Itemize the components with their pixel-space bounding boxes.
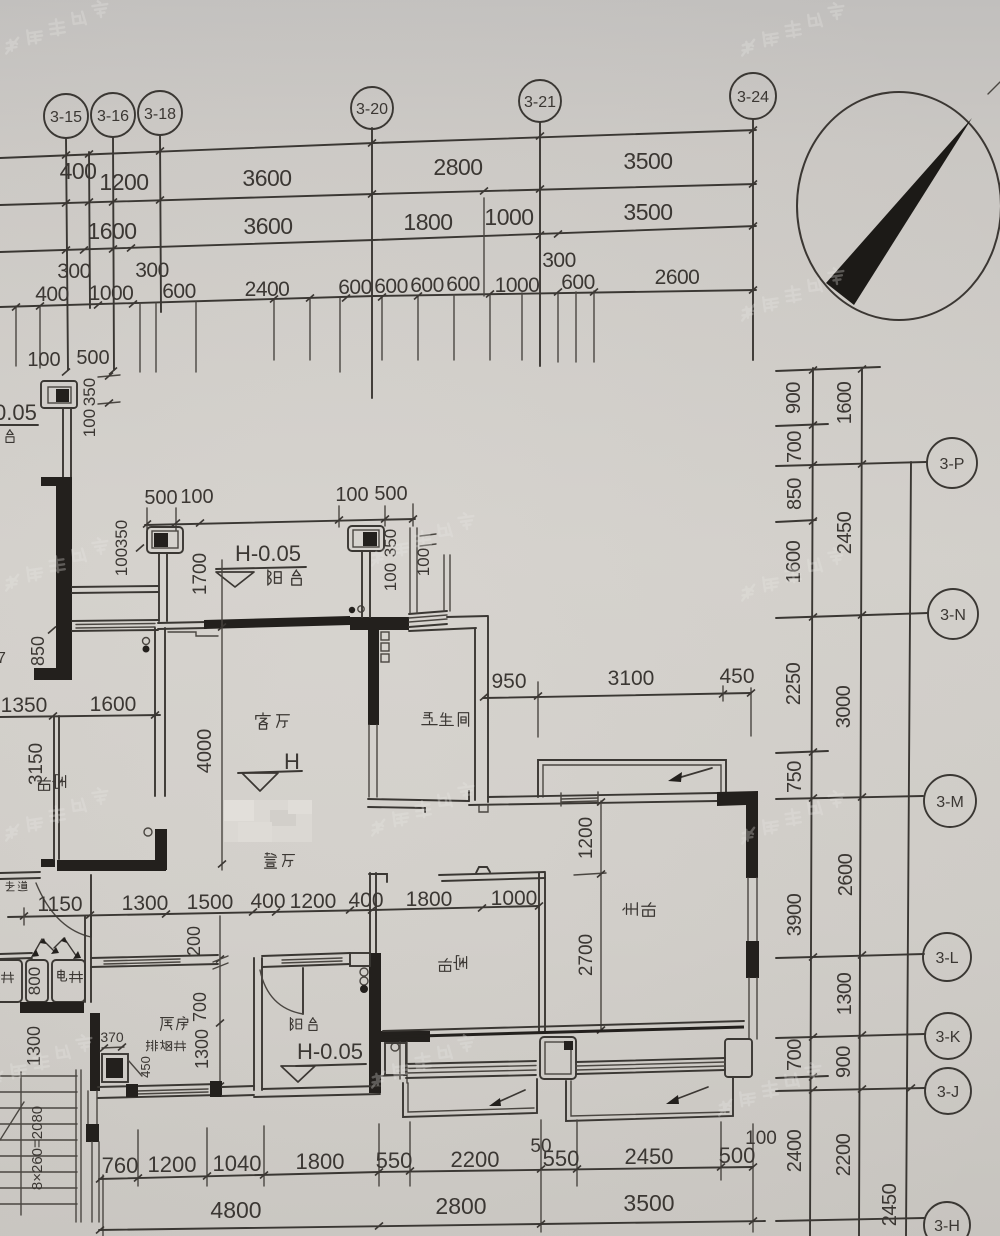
svg-text:300: 300 — [542, 249, 576, 272]
svg-text:760: 760 — [102, 1153, 139, 1178]
svg-text:3-24: 3-24 — [737, 89, 769, 106]
svg-text:100: 100 — [414, 548, 433, 576]
svg-text:450: 450 — [138, 1056, 153, 1078]
small circles node — [143, 638, 150, 645]
grid bubble 3-20 — [351, 87, 393, 129]
sw wall below kitchen — [87, 1091, 89, 1124]
svg-text:600: 600 — [338, 276, 372, 299]
grid line 3-20 — [371, 128, 373, 398]
svg-text:2450: 2450 — [879, 1183, 901, 1226]
svg-text:1150: 1150 — [37, 893, 82, 916]
svg-text:1000: 1000 — [495, 274, 540, 297]
living north wall — [158, 622, 206, 623]
arrow balcony 2 — [674, 1087, 708, 1100]
tick slashes row D — [12, 304, 20, 311]
svg-text:3-K: 3-K — [936, 1029, 961, 1046]
svg-text:1200: 1200 — [290, 890, 337, 913]
svg-text:3-21: 3-21 — [524, 94, 556, 111]
svg-text:3600: 3600 — [243, 213, 292, 239]
svg-text:2700: 2700 — [576, 934, 597, 976]
node circles — [360, 968, 368, 976]
corner mark — [988, 82, 1000, 94]
row A texts — [60, 148, 673, 195]
svg-text:1000: 1000 — [484, 204, 533, 230]
svg-text:1200: 1200 — [99, 169, 148, 195]
window band bedroom2 — [406, 1061, 536, 1064]
label zoudao — [6, 881, 14, 891]
grid bubble 3-18 — [138, 91, 182, 135]
row B texts — [87, 199, 672, 244]
s-balcony south wall — [262, 1086, 380, 1089]
master east black wall upper — [717, 791, 758, 878]
black wall west — [56, 477, 72, 677]
grid bubble 3-M — [924, 775, 976, 827]
svg-text:2800: 2800 — [433, 154, 482, 180]
svg-text:3150: 3150 — [26, 743, 47, 785]
mid dim row — [8, 906, 539, 917]
svg-text:3-N: 3-N — [940, 607, 966, 624]
svg-text:3500: 3500 — [623, 199, 672, 225]
svg-text:850: 850 — [28, 636, 48, 666]
svg-text:550: 550 — [376, 1148, 413, 1173]
svg-text:1700: 1700 — [190, 553, 211, 595]
dim line vertical master — [600, 801, 602, 1031]
tick slashes row C — [62, 247, 70, 254]
stairs — [0, 1070, 81, 1222]
svg-text:1800: 1800 — [406, 888, 453, 911]
svg-text:3-P: 3-P — [940, 456, 965, 473]
grid line 3-24 — [752, 119, 754, 360]
svg-text:600: 600 — [561, 271, 595, 294]
bay arrow — [678, 768, 712, 778]
balcony side walls — [158, 553, 160, 621]
label weishengjian — [422, 713, 437, 725]
svg-text:1200: 1200 — [576, 817, 597, 859]
svg-text:7: 7 — [0, 650, 6, 667]
watermark TR — [737, 2, 848, 56]
svg-text:2600: 2600 — [655, 266, 700, 289]
bath window north — [409, 611, 447, 614]
bottom dim row 1 — [99, 1167, 753, 1179]
bottom dim row 2 — [99, 1221, 765, 1230]
svg-text:3900: 3900 — [784, 893, 806, 936]
svg-text:500: 500 — [374, 483, 407, 505]
label woshi rotated — [439, 959, 452, 972]
svg-text:350: 350 — [80, 378, 99, 406]
s-balcony east wall white box — [350, 953, 370, 966]
svg-text:300: 300 — [57, 260, 91, 283]
label zhuwo rotated — [623, 903, 637, 916]
svg-text:700: 700 — [190, 992, 210, 1022]
watermark M5 — [367, 1034, 478, 1088]
master east window — [747, 878, 749, 941]
svg-text:700: 700 — [784, 1039, 806, 1071]
svg-text:3-H: 3-H — [934, 1218, 960, 1235]
svg-text:4800: 4800 — [210, 1197, 261, 1223]
svg-text:1200: 1200 — [148, 1152, 197, 1177]
svg-text:400: 400 — [348, 889, 383, 912]
dim row line B — [0, 184, 756, 205]
grid bubble 3-P — [927, 438, 977, 488]
kitchen east / s-balcony west wall — [253, 958, 255, 1090]
svg-text:500: 500 — [76, 347, 109, 369]
shaft boxes — [0, 960, 22, 1002]
svg-text:0.05: 0.05 — [0, 400, 37, 425]
svg-text:100: 100 — [335, 484, 368, 506]
window band NW — [72, 620, 158, 621]
grid bubble 3-24 — [730, 73, 776, 119]
chain line B — [859, 368, 862, 1236]
tick slashes row A — [62, 152, 70, 159]
svg-text:1350: 1350 — [1, 694, 48, 717]
svg-text:950: 950 — [491, 670, 526, 693]
bedroom2 divider wall — [538, 873, 540, 1033]
svg-text:3100: 3100 — [608, 667, 655, 690]
shaft hatch triangles — [33, 938, 77, 957]
grid bubble 3-J — [925, 1068, 971, 1114]
svg-text:3-L: 3-L — [935, 950, 958, 967]
svg-text:2200: 2200 — [451, 1147, 500, 1172]
grid bubble 3-L — [923, 933, 971, 981]
row C texts — [57, 249, 576, 283]
label jing partial — [2, 972, 14, 983]
svg-text:3500: 3500 — [623, 1190, 674, 1216]
living west black wall — [155, 829, 167, 870]
branch black wall — [381, 1031, 430, 1042]
watermark M4 — [367, 782, 478, 836]
svg-text:600: 600 — [446, 273, 480, 296]
shaft walls above bath — [409, 528, 411, 613]
svg-text:3600: 3600 — [242, 165, 291, 191]
bath top inner line — [409, 628, 476, 631]
corridor east wall — [84, 916, 86, 1002]
corridor door arc — [36, 883, 91, 937]
master north wall — [488, 793, 717, 797]
svg-text:750: 750 — [784, 761, 806, 793]
svg-text:100: 100 — [27, 349, 60, 371]
svg-text:450: 450 — [719, 665, 754, 688]
balcony dim line — [145, 519, 415, 525]
compass needle — [826, 118, 972, 305]
svg-text:100: 100 — [80, 409, 99, 437]
svg-text:2250: 2250 — [783, 662, 805, 705]
svg-text:3-J: 3-J — [937, 1084, 959, 1101]
svg-text:600: 600 — [410, 274, 444, 297]
blur patch — [224, 800, 312, 842]
master bay window — [538, 760, 726, 797]
row D texts — [35, 266, 699, 306]
black bar below shafts — [20, 1002, 84, 1013]
svg-text:1500: 1500 — [187, 891, 234, 914]
balcony master — [566, 1077, 733, 1121]
svg-text:800: 800 — [25, 967, 44, 995]
compass circle — [797, 92, 1000, 320]
living west wall — [154, 628, 156, 796]
kitchen south window — [98, 1084, 218, 1087]
door knob circle — [144, 828, 152, 836]
corridor door leaf — [90, 875, 92, 937]
east window 2 — [748, 978, 750, 1039]
svg-text:2400: 2400 — [784, 1129, 806, 1172]
tick line 1000/1800 — [483, 198, 485, 296]
bedrooms south wall — [383, 1027, 744, 1037]
grid bubble 3-16 — [91, 93, 135, 137]
other-unit bedroom south black wall — [57, 860, 166, 871]
paiyanjing label — [146, 1040, 157, 1051]
node circles at bath corner — [349, 607, 355, 613]
tick line 400 — [89, 152, 90, 308]
column south left — [385, 1043, 406, 1075]
svg-text:900: 900 — [833, 1046, 855, 1078]
svg-text:550: 550 — [543, 1146, 580, 1171]
watermark L5 — [0, 1034, 96, 1088]
s-balcony label yangtai — [290, 1018, 301, 1031]
bathroom black west wall — [368, 628, 379, 725]
svg-text:600: 600 — [162, 280, 196, 303]
svg-text:1800: 1800 — [296, 1149, 345, 1174]
grid line 3-21 — [539, 122, 541, 366]
bath top outer line — [447, 616, 488, 617]
small shaft right of wall — [399, 1042, 401, 1079]
bath south wall — [368, 799, 469, 801]
svg-text:900: 900 — [783, 382, 805, 414]
label keting — [256, 713, 270, 729]
underline — [0, 424, 38, 426]
grid bubble 3-21 — [519, 80, 561, 122]
window band master — [576, 1058, 725, 1062]
svg-text:3-16: 3-16 — [97, 108, 129, 125]
svg-text:1300: 1300 — [834, 972, 856, 1015]
kitchen west black wall — [90, 1013, 100, 1091]
dim row line D — [0, 290, 756, 307]
svg-text:4000: 4000 — [194, 729, 216, 774]
grid line 3-16 — [113, 137, 114, 370]
s-balcony top window — [262, 953, 350, 956]
watermark R4 — [737, 790, 848, 844]
tick slashes right chains — [809, 367, 817, 374]
svg-text:2450: 2450 — [625, 1144, 674, 1169]
s-balcony door leaf + arc — [302, 968, 304, 1014]
svg-text:1000: 1000 — [491, 887, 538, 910]
rotated chain texts outer — [833, 381, 901, 1226]
svg-text:200: 200 — [184, 926, 204, 956]
master east black wall lower — [746, 941, 759, 978]
svg-text:100: 100 — [745, 1128, 777, 1149]
svg-text:2400: 2400 — [245, 278, 290, 301]
svg-text:H-0.05: H-0.05 — [297, 1039, 363, 1064]
svg-text:1000: 1000 — [89, 282, 134, 305]
svg-text:3-15: 3-15 — [50, 109, 82, 126]
svg-text:1300: 1300 — [122, 892, 169, 915]
window in master north wall — [561, 798, 598, 799]
balcony column left — [147, 527, 183, 553]
svg-text:2200: 2200 — [833, 1133, 855, 1176]
corridor top wall — [0, 872, 40, 873]
column NW — [41, 381, 77, 408]
label canting — [265, 853, 277, 868]
dim row line A — [0, 130, 756, 158]
chain line A — [810, 368, 813, 1236]
dim line 1350 1600 — [0, 715, 160, 717]
level tick lines — [776, 367, 880, 371]
svg-text:850: 850 — [784, 478, 806, 510]
bath east wall — [474, 629, 476, 800]
dim row line C — [0, 226, 756, 252]
svg-text:2600: 2600 — [835, 853, 857, 896]
grid line 3-15 — [66, 138, 68, 370]
column south right — [725, 1039, 752, 1077]
svg-text:3000: 3000 — [833, 685, 855, 728]
watermark M3 — [367, 512, 478, 566]
notch below wall — [479, 805, 488, 812]
svg-text:1600: 1600 — [834, 381, 856, 424]
grid bubble 3-H — [924, 1202, 970, 1236]
label woshi other unit rotated — [38, 778, 51, 791]
svg-text:1600: 1600 — [90, 693, 137, 716]
bay window other unit — [72, 586, 158, 587]
kitchen north wall window — [91, 955, 218, 958]
svg-text:3-18: 3-18 — [144, 106, 176, 123]
svg-text:2800: 2800 — [435, 1193, 486, 1219]
svg-text:370: 370 — [100, 1029, 124, 1045]
watermark L3 — [1, 537, 112, 591]
svg-text:600: 600 — [374, 275, 408, 298]
svg-text:1800: 1800 — [403, 209, 452, 235]
watermark TL — [1, 0, 112, 54]
svg-text:H-0.05: H-0.05 — [235, 541, 301, 566]
column south mid — [540, 1037, 576, 1079]
svg-text:100: 100 — [112, 548, 131, 576]
svg-text:350: 350 — [112, 520, 131, 548]
other-unit bedroom east wall — [53, 716, 55, 859]
bedroom2 west wall thin — [369, 873, 371, 953]
svg-text:3500: 3500 — [623, 148, 672, 174]
svg-text:700: 700 — [784, 431, 806, 463]
svg-text:3-20: 3-20 — [356, 101, 388, 118]
svg-text:300: 300 — [135, 259, 169, 282]
svg-text:100: 100 — [381, 563, 400, 591]
svg-text:400: 400 — [250, 890, 285, 913]
drop lines below row D — [16, 291, 594, 372]
svg-text:100: 100 — [180, 486, 213, 508]
svg-text:400: 400 — [35, 283, 69, 306]
kitchen label — [161, 1018, 174, 1031]
tick slashes row B — [62, 200, 70, 207]
watermark L4 — [1, 787, 112, 841]
arrow balcony 1 — [496, 1090, 525, 1103]
grid line 3-18 — [160, 135, 161, 312]
svg-text:8×260=2080: 8×260=2080 — [29, 1106, 46, 1190]
three vent squares — [381, 632, 389, 640]
svg-text:1600: 1600 — [87, 218, 136, 244]
svg-text:400: 400 — [60, 158, 97, 184]
wall below NW column — [62, 408, 64, 477]
kitchen flue column — [102, 1054, 128, 1082]
grid bubble 3-15 — [44, 94, 88, 138]
balcony bedroom2 — [403, 1079, 537, 1117]
grid bubble 3-K — [925, 1013, 971, 1059]
label dianjing — [58, 970, 67, 981]
corridor bottom wall — [0, 953, 32, 954]
rotated chain texts inner — [783, 382, 806, 1173]
balcony column right — [348, 526, 384, 551]
black wall bath NW — [350, 617, 409, 630]
svg-text:2450: 2450 — [834, 511, 856, 554]
watermark R2 — [737, 267, 848, 321]
svg-text:3-M: 3-M — [936, 794, 964, 811]
svg-text:500: 500 — [144, 487, 177, 509]
grid line C — [906, 462, 911, 1236]
label yangtai balcony — [268, 570, 281, 585]
bath west door jambs — [368, 725, 370, 797]
watermark R3 — [737, 547, 848, 601]
bedroom2 top wall — [439, 872, 545, 875]
dim line vertical living — [221, 560, 223, 870]
bedroom2 west black wall — [369, 953, 381, 1093]
svg-text:1040: 1040 — [213, 1151, 262, 1176]
watermark R5 — [714, 1062, 825, 1116]
grid bubble 3-N — [928, 589, 978, 639]
svg-text:1300: 1300 — [192, 1029, 212, 1069]
